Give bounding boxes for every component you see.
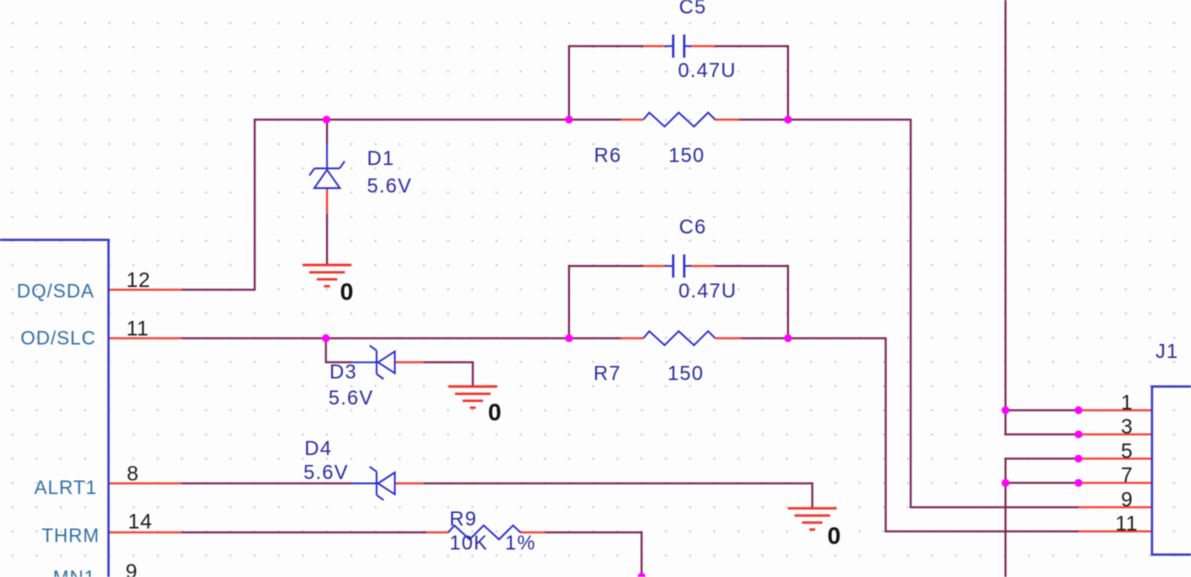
svg-text:11: 11: [1115, 512, 1138, 535]
svg-text:9: 9: [126, 561, 138, 577]
svg-text:THRM: THRM: [42, 526, 100, 547]
svg-text:D3: D3: [330, 362, 358, 384]
svg-text:0: 0: [488, 400, 501, 427]
svg-text:5.6V: 5.6V: [329, 388, 374, 410]
svg-text:14: 14: [128, 510, 152, 533]
svg-text:0.47U: 0.47U: [679, 281, 737, 303]
svg-text:R6: R6: [594, 145, 622, 167]
svg-text:0: 0: [827, 523, 840, 550]
svg-text:10K: 10K: [450, 533, 489, 555]
svg-text:0.47U: 0.47U: [678, 60, 736, 82]
svg-text:1: 1: [1121, 391, 1133, 414]
svg-text:9: 9: [1121, 489, 1133, 512]
svg-text:11: 11: [126, 318, 149, 341]
svg-text:D4: D4: [305, 438, 333, 460]
svg-text:ALRT1: ALRT1: [34, 478, 97, 499]
svg-text:150: 150: [668, 363, 704, 385]
svg-text:J1: J1: [1156, 341, 1179, 363]
svg-text:8: 8: [127, 463, 139, 486]
svg-text:R9: R9: [450, 509, 478, 531]
svg-text:7: 7: [1121, 464, 1133, 487]
svg-text:OD/SLC: OD/SLC: [21, 329, 97, 350]
svg-text:D1: D1: [367, 148, 395, 170]
svg-text:0: 0: [340, 279, 353, 306]
svg-text:5.6V: 5.6V: [367, 176, 412, 198]
svg-text:MN1: MN1: [53, 568, 96, 577]
svg-text:5.6V: 5.6V: [304, 462, 349, 484]
svg-text:3: 3: [1121, 416, 1133, 439]
svg-text:12: 12: [126, 269, 150, 292]
svg-text:R7: R7: [594, 363, 622, 385]
svg-text:C6: C6: [679, 217, 707, 239]
svg-text:5: 5: [1121, 440, 1133, 463]
svg-text:1%: 1%: [505, 533, 536, 555]
svg-text:DQ/SDA: DQ/SDA: [17, 282, 95, 303]
svg-text:150: 150: [669, 145, 705, 167]
svg-text:C5: C5: [679, 0, 707, 19]
